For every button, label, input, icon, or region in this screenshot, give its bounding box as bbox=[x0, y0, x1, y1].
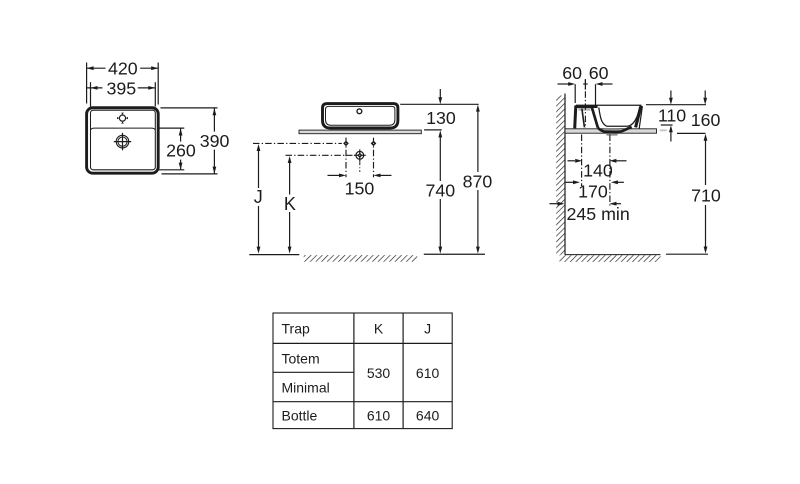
svg-text:260: 260 bbox=[166, 141, 196, 161]
front view: top extension line bbox=[400, 103, 479, 105]
front view: floor hatch bbox=[304, 255, 418, 262]
side view: countertop break dash bbox=[660, 129, 667, 131]
table header K bbox=[374, 321, 384, 337]
svg-text:610: 610 bbox=[367, 408, 391, 424]
svg-text:J: J bbox=[424, 321, 431, 337]
svg-text:245 min: 245 min bbox=[567, 204, 630, 224]
dim J bbox=[254, 144, 263, 254]
front view: fixing point left bbox=[343, 138, 349, 178]
svg-text:870: 870 bbox=[463, 172, 493, 192]
table row Bottle bbox=[282, 408, 318, 424]
side view: wall hatch bbox=[556, 96, 565, 255]
front view: overflow hole bbox=[357, 109, 362, 114]
table value K 530 bbox=[367, 365, 391, 381]
top view: basin outer rim bbox=[87, 108, 159, 174]
dim 60 second bbox=[583, 63, 612, 89]
top view: drain symbol bbox=[114, 133, 131, 150]
dim 160 bbox=[677, 91, 721, 134]
svg-text:Trap: Trap bbox=[282, 321, 310, 337]
svg-text:640: 640 bbox=[416, 408, 440, 424]
dim 260 bbox=[157, 128, 196, 170]
side view: basin section bbox=[575, 105, 643, 135]
trap table frame bbox=[273, 313, 452, 429]
svg-text:170: 170 bbox=[578, 182, 608, 202]
dim 170 bbox=[565, 180, 624, 201]
svg-text:Bottle: Bottle bbox=[282, 408, 318, 424]
svg-text:710: 710 bbox=[691, 186, 721, 206]
dim K bbox=[284, 156, 296, 254]
side view: faucet centerline bbox=[584, 79, 586, 128]
svg-text:150: 150 bbox=[345, 178, 375, 198]
svg-text:420: 420 bbox=[108, 59, 138, 79]
side view: extension line back edge bbox=[574, 84, 576, 103]
dim 150 bbox=[328, 174, 392, 199]
side view: wall line bbox=[564, 94, 566, 255]
svg-text:60: 60 bbox=[562, 63, 582, 83]
dim 870 bbox=[463, 105, 493, 254]
side view: floor line right segment bbox=[666, 253, 708, 255]
svg-text:160: 160 bbox=[691, 110, 721, 130]
front view: fixing point right bbox=[371, 138, 377, 178]
side view: top extension line bbox=[646, 104, 706, 106]
svg-text:140: 140 bbox=[583, 161, 613, 181]
front view: ground line left bbox=[249, 254, 299, 256]
svg-text:J: J bbox=[254, 187, 263, 207]
table value Bottle K 610 bbox=[367, 408, 391, 424]
dim 710 bbox=[691, 134, 721, 254]
front view: ground line right bbox=[424, 253, 485, 255]
front view: countertop slab bbox=[299, 130, 421, 134]
front view: centerline lower (drain) bbox=[286, 154, 353, 156]
dim 130 bbox=[424, 89, 456, 130]
dim 420 bbox=[87, 59, 159, 105]
svg-text:Totem: Totem bbox=[282, 350, 320, 366]
svg-text:740: 740 bbox=[425, 181, 455, 201]
side view: floor hatch bbox=[560, 255, 661, 262]
front view: drain position symbol bbox=[354, 149, 366, 172]
dim 390 bbox=[161, 108, 230, 174]
top view: faucet hole symbol bbox=[117, 113, 128, 124]
svg-text:395: 395 bbox=[106, 78, 136, 98]
front view: basin outline bbox=[323, 104, 398, 128]
table value J 610 bbox=[416, 365, 440, 381]
table row Minimal bbox=[282, 379, 330, 395]
svg-text:Minimal: Minimal bbox=[282, 379, 330, 395]
svg-text:K: K bbox=[284, 194, 296, 214]
top view: basin inner rim bbox=[91, 110, 156, 170]
dim 60 first bbox=[558, 63, 583, 86]
dim 140 bbox=[568, 159, 627, 181]
svg-text:610: 610 bbox=[416, 365, 440, 381]
top view: deck divider line bbox=[91, 128, 155, 130]
side view: drain centerline bbox=[609, 135, 611, 207]
side view: floor line bbox=[565, 254, 661, 256]
svg-text:60: 60 bbox=[589, 63, 609, 83]
front view: centerline upper (fixing holes) bbox=[253, 142, 342, 144]
dim 740 bbox=[425, 130, 455, 253]
dim 110 bbox=[658, 91, 686, 142]
table row Totem bbox=[282, 350, 320, 366]
table header Trap bbox=[282, 321, 310, 337]
side view: extension line faucet front bbox=[595, 84, 597, 105]
table header J bbox=[424, 321, 431, 337]
svg-text:K: K bbox=[374, 321, 384, 337]
svg-text:130: 130 bbox=[426, 108, 456, 128]
table value Bottle J 640 bbox=[416, 408, 440, 424]
side view: lower faucet centerline bbox=[581, 135, 583, 187]
dim 245 min bbox=[550, 202, 630, 224]
svg-text:530: 530 bbox=[367, 365, 391, 381]
dim 395 bbox=[86, 78, 155, 106]
svg-text:110: 110 bbox=[658, 106, 686, 126]
svg-text:390: 390 bbox=[200, 131, 230, 151]
front view: basin inner line bbox=[326, 106, 395, 125]
side view: countertop slab bbox=[565, 129, 657, 133]
